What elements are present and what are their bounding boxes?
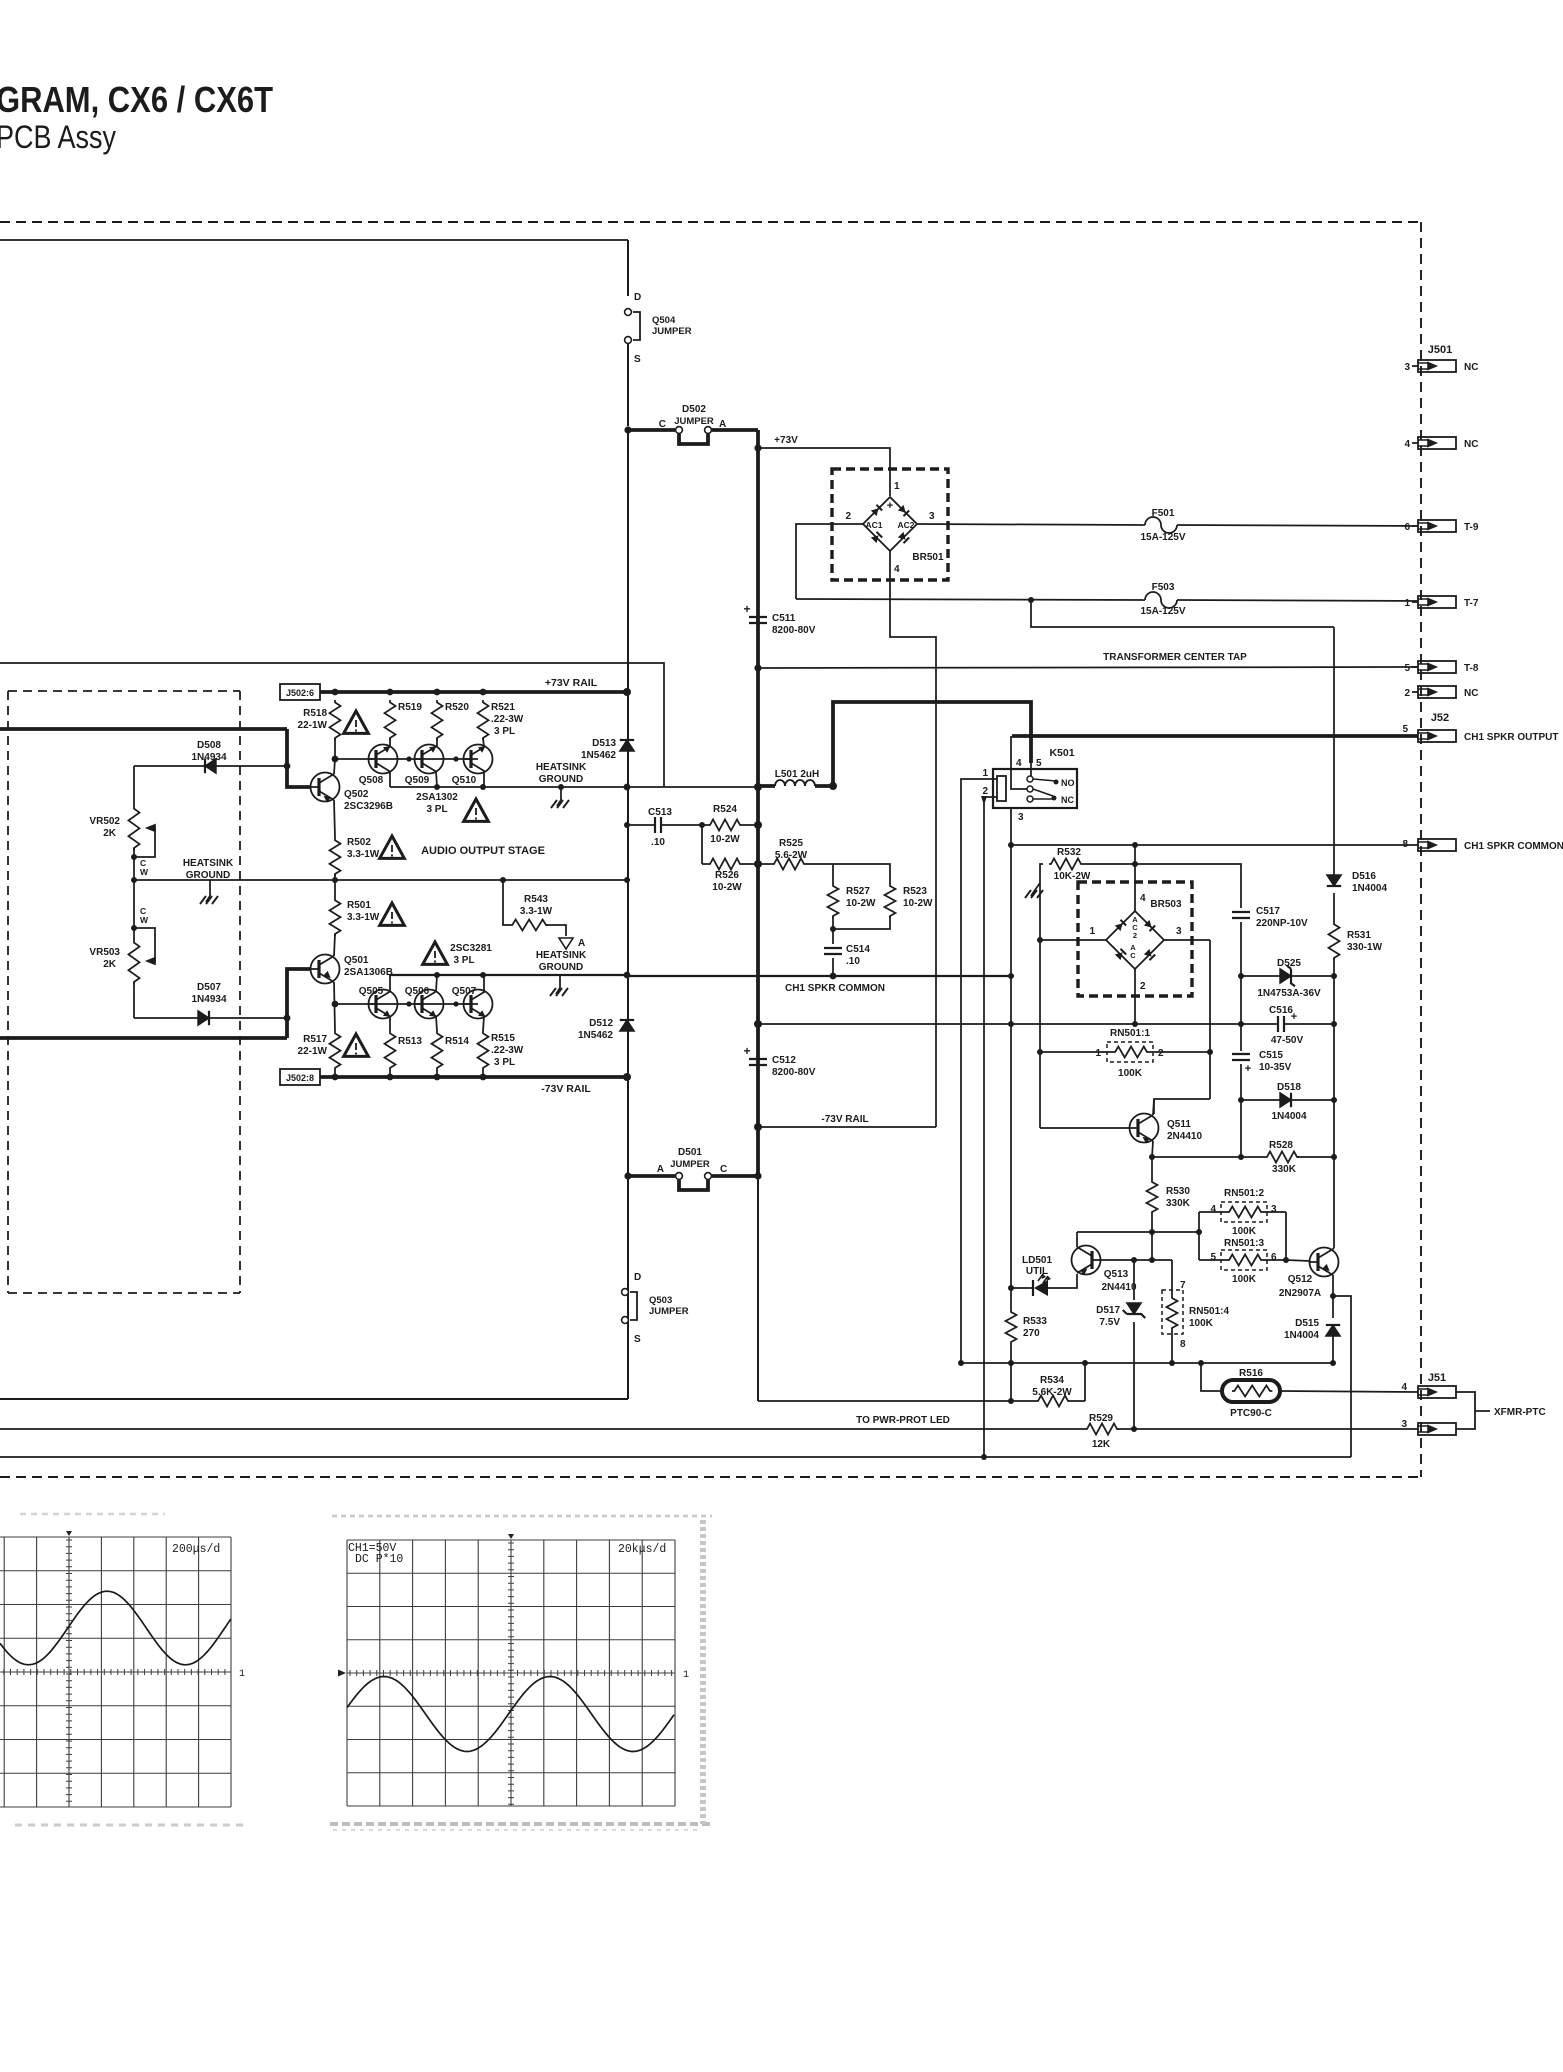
node -73V rail [480,1074,487,1081]
thick wire CH1 SPKR OUTPUT to J52 pin5 [1012,734,1418,738]
capacitor C515 10-35V [1232,1054,1250,1060]
node R530 bottom [1149,1229,1155,1235]
node D518 right [1331,1097,1337,1103]
svg-text:JUMPER: JUMPER [674,416,714,427]
svg-text:7.5V: 7.5V [1099,1317,1120,1328]
svg-text:330-1W: 330-1W [1347,942,1383,953]
svg-text:R501: R501 [347,900,371,911]
svg-text:VR503: VR503 [89,947,120,958]
svg-text:1N4934: 1N4934 [191,752,226,763]
wire to Q511 collector [1154,1099,1210,1114]
node heatsink line [480,784,486,790]
svg-text:4: 4 [894,564,900,575]
wire to C517 [1135,864,1241,908]
node +73V rail at x628 [623,688,631,696]
svg-text:J52: J52 [1431,712,1449,724]
wire Q502 emitter to R502 [334,800,335,838]
wire C513 to R524 [662,824,708,826]
svg-text:PCB Assy: PCB Assy [0,119,116,155]
svg-text:.22-3W: .22-3W [491,1045,524,1056]
connector J501 pin 5 [1418,661,1456,673]
thick wire node to D502 jumper [628,428,675,432]
svg-text:5: 5 [1036,758,1042,769]
node C514 bottom [830,973,837,980]
svg-text:2: 2 [1158,1048,1164,1059]
svg-text:8200-80V: 8200-80V [772,625,816,636]
svg-text:J502:8: J502:8 [286,1073,314,1083]
svg-text:2K: 2K [103,828,117,839]
oscilloscope screenshot left [0,1537,231,1807]
wire L501 to output node [815,784,833,788]
svg-text:J51: J51 [1428,1372,1446,1384]
resistor R515 .22-3W [478,1031,489,1077]
svg-text:+: + [1245,1063,1251,1075]
wire stub [1412,365,1418,367]
svg-text:NC: NC [1464,688,1478,699]
svg-text:3 PL: 3 PL [494,726,515,737]
wire Q505 emitter to R513 [389,1016,391,1031]
svg-text:2SC3296B: 2SC3296B [344,801,393,812]
svg-text:RN501:4: RN501:4 [1189,1306,1229,1317]
node R533 bottom [1008,1360,1014,1366]
ground heatsink left [200,896,218,904]
left dashed box top [8,690,240,692]
wire CH1 SPKR COMMON to J52 pin8 [1011,844,1418,846]
connector J501 pin 1 [1418,596,1456,608]
svg-text:T-8: T-8 [1464,663,1479,674]
svg-text:330K: 330K [1166,1198,1191,1209]
node base rail lower [406,1001,411,1006]
svg-text:GROUND: GROUND [539,962,583,973]
resistor R518 22-1W [330,700,341,740]
svg-text:Q503: Q503 [649,1295,672,1306]
thick wire to D501 jumper [628,1174,675,1178]
wire D507 row [134,1017,287,1019]
svg-text:100K: 100K [1118,1068,1143,1079]
resistor network RN501:2 100K [1221,1202,1267,1222]
contact NC [1052,796,1057,801]
resistor R520 [432,700,443,740]
wire relay pin5 inside [1030,763,1032,776]
svg-text:22-1W: 22-1W [298,1046,328,1057]
node +73V branch [754,444,761,451]
svg-text:3 PL: 3 PL [426,804,447,815]
node base rail [453,756,458,761]
node -73V rail [434,1074,441,1081]
svg-text:R528: R528 [1269,1140,1293,1151]
node D525 left [1238,973,1244,979]
connector label J502:8 [280,1069,320,1085]
wire heatsink ground line upper [390,786,758,788]
relay K501 [993,769,1077,808]
capacitor C517 220NP-10V [1232,912,1250,918]
svg-text:Q509: Q509 [405,775,430,786]
node heatsink line [558,784,564,790]
svg-text:Q508: Q508 [359,775,384,786]
capacitor C511 8200-80V [749,617,767,623]
svg-text:F503: F503 [1152,582,1175,593]
svg-text:S: S [634,1334,641,1345]
svg-text:C516: C516 [1269,1005,1293,1016]
svg-text:R533: R533 [1023,1316,1047,1327]
svg-text:-73V RAIL: -73V RAIL [541,1083,591,1095]
wire down to R526 [701,825,703,864]
transistor Q508 [369,745,398,774]
svg-text:D518: D518 [1277,1082,1301,1093]
node heatsink line x628 [624,784,631,791]
svg-text:Q504: Q504 [652,315,676,326]
svg-text:T-9: T-9 [1464,522,1479,533]
wire transformer center tap to J501 pin5 [758,667,1418,668]
wire PTC to J51 pin4 [1280,1391,1418,1392]
wire x758 below D501 [757,1176,759,1401]
wire F501 to J501 pin6 [1177,525,1418,526]
node heatsink line [434,784,440,790]
svg-text:220NP-10V: 220NP-10V [1256,918,1308,929]
fuse F503 [1145,592,1177,608]
resistor R528 330K [1265,1152,1299,1163]
svg-text:NC: NC [1464,362,1478,373]
node D525 right [1331,973,1337,979]
wire protect chain x1335 upper [1333,627,1335,875]
inductor L501 2uH [775,780,815,786]
thick wire step to Q502 base [287,729,311,787]
wire D508 to VR502 [133,766,135,806]
node R534 left [1008,1398,1014,1404]
node mid at x628 [624,877,630,883]
svg-text:Q511: Q511 [1167,1119,1191,1130]
svg-text:2: 2 [1140,981,1146,992]
wire x628 bottom to left edge [0,1398,628,1400]
wire stub [1412,691,1418,693]
node R526/R525 on x758 [754,860,762,868]
wire branch to D516 chain [1031,600,1334,627]
connector J52 pin 5 [1418,730,1456,742]
svg-text:J502:6: J502:6 [286,688,314,698]
svg-text:-73V RAIL: -73V RAIL [821,1114,868,1125]
svg-text:2K: 2K [103,959,117,970]
node lower line [480,972,486,978]
wire stub [1412,442,1418,444]
node VR503 wiper join [131,925,137,931]
svg-text:3: 3 [1401,1419,1407,1430]
svg-text:W: W [140,867,149,877]
resistor R523 10-2W [885,884,896,918]
node lower line [434,972,440,978]
warning triangle R501 [380,903,405,925]
wire Q508 to heatsink line [389,771,391,787]
svg-text:2: 2 [982,786,988,797]
svg-text:3 PL: 3 PL [494,1057,515,1068]
node +73V rail [387,689,394,696]
svg-text:1: 1 [894,481,900,492]
wire ground stub upper [560,787,562,800]
wire Q512 base link [1286,1260,1310,1261]
PTC resistor R516 PTC90-C [1222,1380,1280,1402]
svg-text:C512: C512 [772,1055,796,1066]
resistor RN501:1 element [1040,1047,1210,1058]
diode D515 1N4004 [1326,1325,1340,1336]
svg-text:3: 3 [1018,812,1024,823]
wire ground stub R532 [1035,883,1040,890]
wire bias mid line [134,879,627,881]
resistor R534 5.6K-2W [1011,1396,1085,1407]
svg-text:1N4004: 1N4004 [1271,1111,1306,1122]
svg-text:R531: R531 [1347,930,1371,941]
node D507 to base feed [284,1015,291,1022]
svg-text:D501: D501 [678,1147,702,1158]
svg-text:D525: D525 [1277,958,1301,969]
outer dashed border right [1420,222,1422,1477]
resistor R514 [432,1031,443,1077]
wire D515 to protect bottom [1332,1336,1334,1363]
svg-text:Q507: Q507 [452,986,477,997]
resistor R525 5.6-2W [758,859,833,870]
outer dashed border bottom [0,1476,1421,1478]
svg-text:1N4753A-36V: 1N4753A-36V [1257,988,1321,999]
svg-text:AUDIO OUTPUT STAGE: AUDIO OUTPUT STAGE [421,845,545,857]
wire XFMR-PTC bracket [1456,1392,1490,1429]
transistor Q502 [311,773,340,802]
net arrow A [559,938,573,949]
svg-text:R514: R514 [445,1036,469,1047]
wire stub [1412,525,1418,527]
scope trigger markers [66,1531,72,1536]
wire VR503 to D507 row [133,982,135,1018]
svg-text:LD501: LD501 [1022,1255,1052,1266]
svg-text:2SA1302: 2SA1302 [416,792,458,803]
wire R518 to base rail [334,738,336,759]
wire BR503 pin3 down to Q511 collector row [1209,940,1211,1099]
svg-text:C511: C511 [772,613,796,624]
svg-text:1: 1 [239,1669,245,1680]
svg-text:D507: D507 [197,982,221,993]
svg-text:GRAM, CX6 / CX6T: GRAM, CX6 / CX6T [0,79,273,120]
wire to R543 [503,880,510,925]
wire VR503 wiper loop [134,928,155,961]
node output junction x758 [754,783,762,791]
node coil pin1 join [958,1360,964,1366]
node sense at x758 [754,1020,762,1028]
diode D508 [205,759,216,773]
wire Q509 to heatsink line [436,771,437,787]
wire R543 to A arrow [546,925,566,936]
svg-text:12K: 12K [1092,1439,1111,1450]
wire to R523 top [833,864,890,884]
wire BR501 pin3 to fuse F501 [917,524,1145,525]
svg-text:3.3-1W: 3.3-1W [347,912,380,923]
wire Q504 to D502 node [627,344,629,426]
svg-text:D: D [634,292,641,303]
node mid R543 branch [500,877,506,883]
wire BR503 pin2 down [1134,969,1136,1024]
svg-text:+: + [743,602,750,616]
node Q502 collector junction [332,756,339,763]
svg-text:1: 1 [1404,598,1410,609]
connector J501 pin 6 [1418,520,1456,532]
wire Q501 emitter to R517 [334,982,335,1031]
svg-text:R527: R527 [846,886,870,897]
wire to LED anode [1011,1287,1033,1289]
svg-text:C517: C517 [1256,906,1280,917]
thick wire output to relay pin5 [833,702,1031,786]
thick wire bottom drive feed [0,1036,287,1040]
thick wire -73V RAIL [320,1075,628,1079]
warning triangle lower bank [423,942,448,964]
wire sense line to C516 [758,1023,1277,1025]
svg-text:JUMPER: JUMPER [649,1306,689,1317]
wire Q513 emitter to LED [1048,1274,1077,1288]
wire stub [1412,601,1418,603]
diode D507 [198,1011,209,1025]
node PTC riser [1198,1360,1204,1366]
svg-text:Q501: Q501 [344,955,369,966]
svg-text:JUMPER: JUMPER [670,1159,710,1170]
node RN501:1 pin1 [1037,1049,1043,1055]
svg-text:Q512: Q512 [1288,1274,1313,1285]
potentiometer VR502 2K [129,806,140,851]
transistor Q513 2N4410 [1072,1246,1101,1275]
svg-text:3: 3 [1404,362,1410,373]
svg-text:200μs/d: 200μs/d [172,1543,220,1556]
wire upper sense line to output node [0,663,664,787]
svg-text:1N4934: 1N4934 [191,994,226,1005]
svg-text:R519: R519 [398,702,422,713]
svg-text:10-2W: 10-2W [846,898,876,909]
svg-text:1N4004: 1N4004 [1352,883,1387,894]
resistor R533 270 [1006,1292,1017,1363]
resistor R513 [385,1031,396,1077]
svg-text:5: 5 [1404,663,1410,674]
svg-text:.22-3W: .22-3W [491,714,524,725]
warning triangle R502 [380,836,405,858]
transistor Q509 [415,745,444,774]
diode D525 zener [1280,969,1291,983]
svg-text:1N5462: 1N5462 [578,1030,613,1041]
svg-text:TRANSFORMER CENTER TAP: TRANSFORMER CENTER TAP [1103,652,1247,663]
wire C514 to common line [832,958,834,976]
svg-text:2N4410: 2N4410 [1101,1282,1136,1293]
contact NO [1054,780,1059,785]
svg-text:XFMR-PTC: XFMR-PTC [1494,1407,1546,1418]
svg-text:15A-125V: 15A-125V [1140,606,1185,617]
node C515 top [1238,1021,1244,1027]
wire to R534 [758,1400,1011,1402]
svg-text:L501 2uH: L501 2uH [775,769,819,780]
node C516 right [1331,1021,1337,1027]
svg-text:10-2W: 10-2W [712,882,742,893]
resistor R531 330-1W [1329,922,1340,960]
svg-text:CH1 SPKR OUTPUT: CH1 SPKR OUTPUT [1464,732,1558,743]
svg-text:22-1W: 22-1W [298,720,328,731]
svg-text:R543: R543 [524,894,548,905]
node D517 bottom [1131,1426,1137,1432]
oscilloscope screenshot right [347,1540,675,1806]
node R528 right [1331,1154,1337,1160]
wire mid line to VR503 [133,880,135,940]
svg-text:1N4004: 1N4004 [1284,1330,1319,1341]
wire R529 to J51 pin3 [1117,1428,1418,1430]
wire to C514 [832,929,834,944]
svg-text:.10: .10 [846,956,860,967]
wire RN501:2/3 left link [1198,1212,1200,1260]
wire ground stub lower [559,975,561,988]
svg-text:C513: C513 [648,807,672,818]
thick wire main vertical x758 (+73V feed) [756,430,760,1176]
wire base rail lower bank [335,1003,478,1005]
jumper D501 [676,1173,683,1180]
jumper Q503 [622,1289,629,1296]
svg-text:D516: D516 [1352,871,1376,882]
scope waveform [347,1677,674,1752]
node BR503 pin4 tap [1132,842,1138,848]
svg-text:C: C [720,1164,727,1175]
wire relay pin2 down [984,797,997,1457]
svg-text:R521: R521 [491,702,515,713]
node C513 left [624,822,630,828]
svg-text:RN501:2: RN501:2 [1224,1188,1264,1199]
node -73V rail [332,1074,339,1081]
svg-text:T-7: T-7 [1464,598,1479,609]
svg-text:2N2907A: 2N2907A [1279,1288,1321,1299]
svg-text:+73V: +73V [774,435,798,446]
wire main vertical x628 [627,430,629,1399]
node R524/R526 left [699,822,705,828]
wire VR502 to mid line [133,848,135,880]
svg-text:PTC90-C: PTC90-C [1230,1408,1272,1419]
relay coil K501 [997,776,1006,801]
wire to D517 [1133,1260,1135,1300]
wire Q506 collector up [436,975,437,992]
wire C515 to R528 row [1240,1064,1242,1157]
svg-text:4: 4 [1210,1204,1216,1215]
node +73V rail [332,689,339,696]
svg-text:3: 3 [929,511,935,522]
wire x758 to L501 [758,784,775,788]
wire Q506 emitter to R514 [436,1016,437,1031]
svg-text:CH1 SPKR COMMON: CH1 SPKR COMMON [1464,841,1563,852]
transistor Q501 [311,955,340,984]
node LED/R533 [1008,1285,1014,1291]
svg-text:D517: D517 [1096,1305,1120,1316]
svg-text:15A-125V: 15A-125V [1140,532,1185,543]
bridge rectifier BR501 [832,469,948,580]
svg-text:C515: C515 [1259,1050,1283,1061]
node junction x628 y430 [624,426,631,433]
node center tap at x758 [754,664,761,671]
outer dashed border top [0,221,1421,223]
svg-text:S: S [634,354,641,365]
wire D516 to R531 [1333,893,1335,922]
resistor R530 330K [1147,1157,1158,1232]
wire stub [1412,666,1418,668]
resistor network RN501:1 100K [1107,1042,1153,1062]
scope trigger markers [508,1534,514,1539]
node R534 riser [1082,1360,1088,1366]
svg-text:DC P*10: DC P*10 [355,1553,403,1566]
svg-text:10-2W: 10-2W [710,834,740,845]
svg-text:RN501:1: RN501:1 [1110,1028,1150,1039]
svg-text:+73V RAIL: +73V RAIL [545,677,598,689]
wire Q511 base [1040,1127,1130,1129]
svg-text:R513: R513 [398,1036,422,1047]
transistor Q505 [369,990,398,1019]
svg-text:2: 2 [845,511,851,522]
svg-text:UTIL: UTIL [1026,1266,1048,1277]
svg-text:R525: R525 [779,838,803,849]
diode D518 1N4004 [1280,1093,1291,1107]
node RN501:4 bottom [1169,1360,1175,1366]
